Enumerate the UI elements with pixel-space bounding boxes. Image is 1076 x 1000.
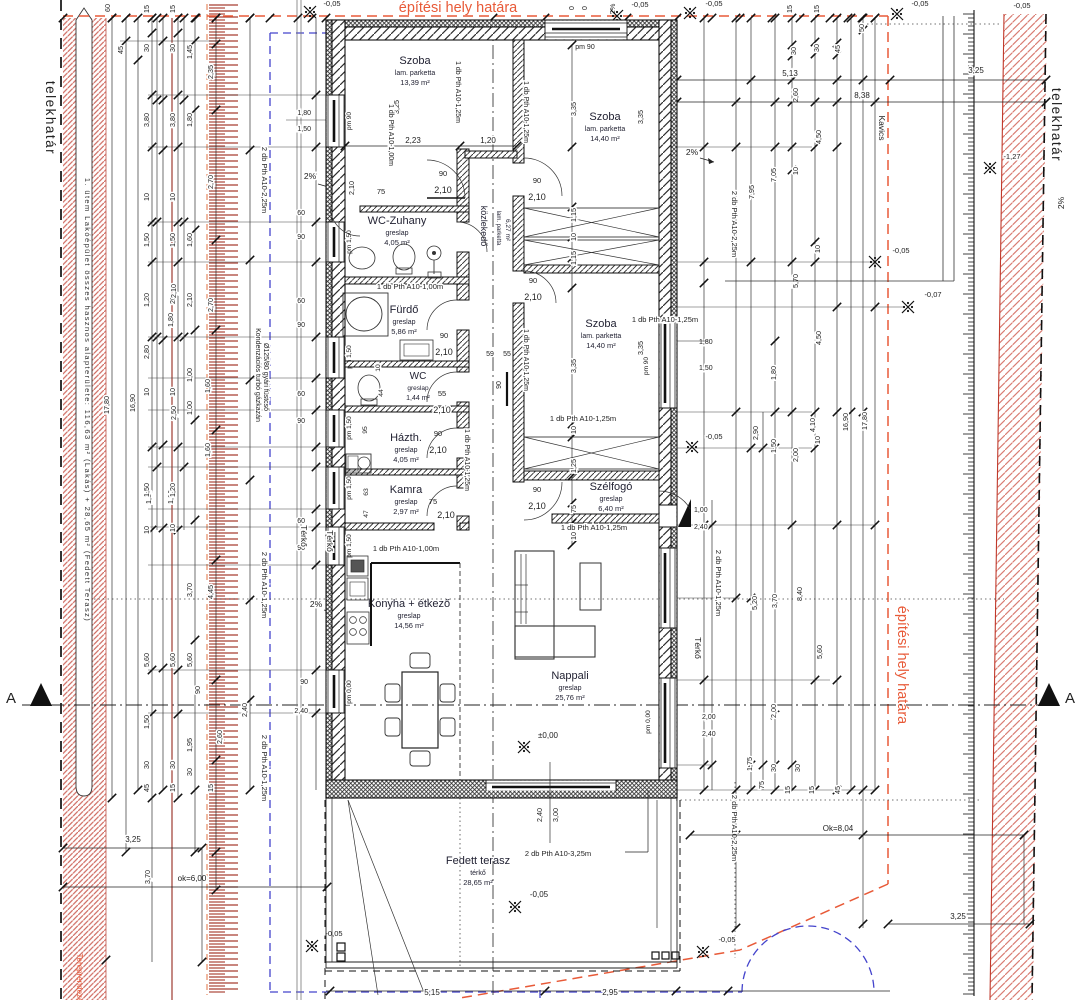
svg-text:15: 15 [168,784,177,792]
svg-text:1,15: 1,15 [569,251,578,265]
svg-text:3,25: 3,25 [968,66,984,75]
svg-text:5,86 m²: 5,86 m² [391,327,417,336]
svg-text:3,25: 3,25 [125,835,141,844]
svg-text:2,10: 2,10 [347,181,356,195]
svg-text:90: 90 [193,686,202,694]
svg-text:15: 15 [206,784,215,792]
svg-text:1,80: 1,80 [769,366,778,380]
svg-text:pm 1,50: pm 1,50 [346,416,353,440]
svg-text:1,95: 1,95 [185,738,194,752]
svg-text:7,05: 7,05 [769,168,778,182]
svg-text:3,35: 3,35 [569,359,578,373]
svg-text:60: 60 [297,518,305,525]
svg-text:lam. parketta: lam. parketta [495,211,501,246]
svg-text:1 db Pth A10-1,25m: 1 db Pth A10-1,25m [463,429,470,491]
svg-text:15: 15 [785,5,794,13]
svg-text:1,50: 1,50 [142,233,151,247]
svg-text:3,35: 3,35 [569,102,578,116]
svg-text:15: 15 [168,5,177,13]
svg-text:15: 15 [812,5,821,13]
svg-text:Szoba: Szoba [589,111,621,123]
svg-text:45: 45 [833,786,842,794]
svg-text:2 db Pth A10-1,25m: 2 db Pth A10-1,25m [714,550,723,616]
svg-text:90: 90 [529,276,537,285]
svg-text:greslap: greslap [395,447,418,454]
svg-text:greslap: greslap [559,685,582,692]
svg-text:2,70: 2,70 [206,298,215,312]
svg-text:2%: 2% [310,599,323,609]
svg-text:2,40: 2,40 [702,731,716,738]
svg-text:10: 10 [813,436,822,444]
svg-text:-0,05: -0,05 [631,0,648,9]
svg-text:1,80: 1,80 [699,339,713,346]
svg-text:75: 75 [377,187,385,196]
svg-text:greslap: greslap [393,319,416,326]
svg-text:10: 10 [813,245,822,253]
svg-text:90: 90 [496,381,503,389]
svg-text:3,80: 3,80 [168,113,177,127]
svg-text:59: 59 [486,351,494,358]
svg-text:45: 45 [833,45,842,53]
svg-text:60: 60 [297,298,305,305]
svg-text:47: 47 [363,510,370,518]
svg-text:2%: 2% [686,147,699,157]
svg-text:2%: 2% [304,171,317,181]
svg-text:90: 90 [300,679,308,686]
svg-text:90: 90 [297,234,305,241]
svg-text:2,00: 2,00 [769,704,778,718]
svg-text:2 db Pth A10-1,25m: 2 db Pth A10-1,25m [260,552,269,618]
svg-text:Tereprendezés: Tereprendezés [75,954,84,1000]
svg-text:15: 15 [783,786,792,794]
svg-text:30: 30 [812,44,821,52]
svg-text:1,20: 1,20 [168,483,177,497]
svg-text:3,35: 3,35 [636,110,645,124]
svg-text:3,70: 3,70 [185,583,194,597]
svg-text:30: 30 [769,764,778,772]
svg-text:2,10: 2,10 [434,185,452,195]
svg-text:75: 75 [569,505,578,513]
svg-text:1. ütem Lakóépület összes hasz: 1. ütem Lakóépület összes hasznos alapte… [83,178,92,622]
svg-text:1,20: 1,20 [480,136,496,145]
svg-text:90: 90 [297,418,305,425]
svg-text:1,20: 1,20 [142,293,151,307]
svg-text:45: 45 [116,46,125,54]
svg-text:60: 60 [297,210,305,217]
svg-text:2 db Pth A10-1,25m: 2 db Pth A10-1,25m [260,735,269,801]
svg-text:90: 90 [434,429,442,438]
svg-text:90: 90 [297,322,305,329]
svg-text:2,60: 2,60 [215,730,224,744]
svg-text:Kavics: Kavics [877,115,887,140]
svg-text:3,25: 3,25 [950,912,966,921]
svg-text:pm 0,00: pm 0,00 [645,710,652,734]
svg-text:-0,05: -0,05 [892,246,909,255]
svg-text:2,50: 2,50 [169,406,178,420]
svg-text:1 db Pth A10-1,00m: 1 db Pth A10-1,00m [377,282,443,291]
svg-text:1 db Pth A10-1,25m: 1 db Pth A10-1,25m [522,329,529,391]
svg-text:greslap: greslap [600,496,623,503]
svg-text:5,20: 5,20 [750,596,759,610]
svg-text:1,80: 1,80 [185,113,194,127]
svg-text:2,40: 2,40 [694,524,708,531]
svg-text:16,90: 16,90 [841,413,850,431]
svg-text:14,40 m²: 14,40 m² [586,341,616,350]
svg-text:30: 30 [142,44,151,52]
svg-text:greslap: greslap [407,385,429,392]
svg-text:2,97 m²: 2,97 m² [393,507,419,516]
svg-text:1,60: 1,60 [203,443,212,457]
svg-text:2 db Pth A10-2,25m: 2 db Pth A10-2,25m [730,795,739,861]
svg-text:30: 30 [168,44,177,52]
svg-text:Házth.: Házth. [390,432,422,444]
svg-text:4,05 m²: 4,05 m² [384,238,410,247]
svg-text:-0,05: -0,05 [325,929,342,938]
svg-text:10: 10 [168,193,177,201]
svg-text:10: 10 [569,532,578,540]
svg-text:lam. parketta: lam. parketta [585,126,626,133]
svg-text:1,00: 1,00 [185,401,194,415]
svg-text:greslap: greslap [395,499,418,506]
svg-text:0: 0 [582,6,589,10]
svg-text:2,40: 2,40 [535,808,544,822]
svg-text:10: 10 [168,524,177,532]
svg-text:10: 10 [375,364,382,372]
svg-text:16,90: 16,90 [128,394,137,412]
svg-text:-1,27: -1,27 [1003,152,1020,161]
svg-text:2,80: 2,80 [142,345,151,359]
svg-text:pm 0,00: pm 0,00 [346,680,353,704]
svg-text:30: 30 [185,768,194,776]
svg-text:Szélfogó: Szélfogó [590,481,633,493]
svg-text:90: 90 [440,331,448,340]
svg-text:28,65 m²: 28,65 m² [463,878,493,887]
svg-text:Fürdő: Fürdő [390,304,419,316]
svg-text:60: 60 [103,4,112,12]
svg-text:pm 1,50: pm 1,50 [346,476,353,500]
svg-text:1 db Pth A10-1,00m: 1 db Pth A10-1,00m [387,104,394,166]
svg-text:építési hely határa: építési hely határa [894,606,910,725]
svg-text:7,95: 7,95 [747,185,756,199]
svg-text:-0,05: -0,05 [323,0,340,8]
svg-text:A: A [1065,690,1075,707]
svg-text:Térkő: Térkő [299,525,309,547]
svg-text:1,80: 1,80 [166,313,175,327]
svg-text:2 db Pth A10-3,25m: 2 db Pth A10-3,25m [525,849,591,858]
svg-text:WC: WC [410,371,427,382]
svg-text:Szoba: Szoba [585,318,617,330]
svg-text:10: 10 [168,388,177,396]
svg-text:térkő: térkő [470,870,486,877]
svg-text:17,80: 17,80 [102,396,111,414]
svg-text:8,38: 8,38 [854,91,870,100]
svg-text:Nappali: Nappali [551,670,588,682]
svg-text:2,40: 2,40 [294,708,308,715]
svg-text:30: 30 [142,761,151,769]
svg-text:-0,05: -0,05 [1013,1,1030,10]
svg-text:15: 15 [142,5,151,13]
svg-text:30: 30 [168,761,177,769]
svg-text:1,00: 1,00 [694,507,708,514]
svg-text:4,10: 4,10 [808,418,817,432]
svg-text:8,40: 8,40 [795,587,804,601]
svg-text:10: 10 [791,167,800,175]
svg-text:2,00: 2,00 [791,448,800,462]
svg-text:2,10: 2,10 [429,445,447,455]
svg-text:Kondenzációs turbó gázkazán: Kondenzációs turbó gázkazán [254,328,261,422]
svg-text:10: 10 [569,426,578,434]
svg-text:2,10: 2,10 [435,347,453,357]
svg-text:1 db Pth A10-1,25m: 1 db Pth A10-1,25m [454,61,461,123]
svg-text:5,60: 5,60 [168,653,177,667]
svg-text:2 db Pth A10-2,25m: 2 db Pth A10-2,25m [730,191,739,257]
svg-text:1,25: 1,25 [569,459,578,473]
svg-text:±0,00: ±0,00 [538,731,559,740]
svg-text:5,15: 5,15 [424,988,440,997]
svg-text:telekhatár: telekhatár [1049,88,1064,162]
svg-text:3,35: 3,35 [636,341,645,355]
svg-text:25,76 m²: 25,76 m² [555,693,585,702]
svg-text:2,70: 2,70 [206,175,215,189]
svg-text:44: 44 [378,389,385,397]
svg-text:75: 75 [757,781,766,789]
svg-text:1,50: 1,50 [769,439,778,453]
svg-text:13,39 m²: 13,39 m² [400,78,430,87]
svg-text:2,23: 2,23 [405,136,421,145]
svg-text:5,60: 5,60 [815,645,824,659]
svg-text:1 db Pth A10-1,00m: 1 db Pth A10-1,00m [373,544,439,553]
svg-text:90: 90 [439,169,447,178]
svg-text:2,00: 2,00 [702,714,716,721]
svg-text:30: 30 [793,764,802,772]
svg-text:2,95: 2,95 [602,988,618,997]
svg-text:-0,05: -0,05 [530,890,549,899]
svg-text:ok=6,00: ok=6,00 [178,874,207,883]
svg-text:10: 10 [569,233,578,241]
svg-text:-0,05: -0,05 [705,432,722,441]
svg-text:55: 55 [503,351,511,358]
svg-text:A: A [6,690,16,707]
svg-text:1 db Pth A10-1,25m: 1 db Pth A10-1,25m [561,523,627,532]
svg-text:30: 30 [789,47,798,55]
svg-text:2,10: 2,10 [169,284,178,298]
svg-text:pm 90: pm 90 [346,112,353,130]
svg-text:60: 60 [297,391,305,398]
svg-text:50: 50 [857,24,866,32]
svg-text:1,50: 1,50 [168,233,177,247]
svg-text:3,70: 3,70 [770,594,779,608]
svg-text:14,40 m²: 14,40 m² [590,134,620,143]
svg-text:1,50: 1,50 [142,715,151,729]
svg-text:55: 55 [438,389,446,398]
svg-text:2,35: 2,35 [206,65,215,79]
svg-text:1,00: 1,00 [185,368,194,382]
svg-text:Fedett terasz: Fedett terasz [446,855,510,867]
svg-text:5,60: 5,60 [185,653,194,667]
svg-text:4,05 m²: 4,05 m² [393,455,419,464]
svg-text:1,60: 1,60 [185,233,194,247]
svg-text:6,27 m²: 6,27 m² [504,219,511,242]
svg-text:pm 1,50: pm 1,50 [346,534,353,558]
svg-text:telekhatár: telekhatár [43,81,58,155]
svg-text:WC-Zuhany: WC-Zuhany [368,215,427,227]
svg-text:4,45: 4,45 [206,585,215,599]
svg-text:lam. parketta: lam. parketta [581,333,622,340]
svg-text:-0,05: -0,05 [705,0,722,8]
svg-text:10: 10 [142,526,151,534]
svg-text:17,80: 17,80 [860,412,869,430]
svg-text:1,75: 1,75 [745,757,754,771]
svg-text:építési hely határa: építési hely határa [399,0,518,16]
svg-text:Térkő: Térkő [325,530,335,552]
svg-text:1 db Pth A10-1,25m: 1 db Pth A10-1,25m [522,81,529,143]
svg-text:3,00: 3,00 [551,808,560,822]
svg-text:pm 90: pm 90 [575,44,595,51]
svg-text:3,70: 3,70 [143,870,152,884]
svg-text:1,50: 1,50 [699,365,713,372]
svg-text:2,10: 2,10 [433,405,451,415]
svg-text:3,80: 3,80 [142,113,151,127]
svg-text:1 db Pth A10-1,25m: 1 db Pth A10-1,25m [632,315,698,324]
svg-text:2,10: 2,10 [185,293,194,307]
svg-text:5,60: 5,60 [142,653,151,667]
svg-text:90: 90 [533,176,541,185]
svg-text:1,50: 1,50 [297,126,311,133]
svg-text:15: 15 [807,786,816,794]
svg-text:2%: 2% [608,3,617,14]
svg-text:1 db Pth A10-1,25m: 1 db Pth A10-1,25m [550,414,616,423]
svg-text:1,15: 1,15 [569,208,578,222]
svg-text:4,50: 4,50 [814,130,823,144]
svg-text:Kamra: Kamra [390,484,423,496]
svg-text:közlekedő: közlekedő [479,206,489,247]
svg-text:63: 63 [363,488,370,496]
svg-text:2,10: 2,10 [437,510,455,520]
svg-text:-0,07: -0,07 [924,290,941,299]
svg-text:10: 10 [142,388,151,396]
svg-text:-0,05: -0,05 [911,0,928,8]
svg-text:1,45: 1,45 [185,45,194,59]
svg-text:pm 90: pm 90 [643,357,650,375]
svg-text:14,56 m²: 14,56 m² [394,621,424,630]
svg-text:90: 90 [533,485,541,494]
svg-text:6,40 m²: 6,40 m² [598,504,624,513]
svg-text:0: 0 [569,6,576,10]
svg-text:2%: 2% [1056,196,1066,209]
svg-text:2,60: 2,60 [791,88,800,102]
svg-text:Térkő: Térkő [693,637,703,659]
svg-text:Konyha + étkező: Konyha + étkező [368,598,450,610]
svg-text:1,80: 1,80 [297,110,311,117]
svg-text:Ø125/80 gyári füstcső: Ø125/80 gyári füstcső [262,343,269,411]
svg-text:greslap: greslap [398,613,421,620]
svg-text:1,50: 1,50 [142,483,151,497]
svg-text:5,13: 5,13 [782,69,798,78]
svg-text:95: 95 [362,426,369,434]
svg-text:4,50: 4,50 [814,331,823,345]
svg-text:10: 10 [142,193,151,201]
svg-text:greslap: greslap [386,230,409,237]
svg-text:2,10: 2,10 [528,192,546,202]
svg-text:-0,05: -0,05 [718,935,735,944]
svg-text:2 db Pth A10-2,25m: 2 db Pth A10-2,25m [260,147,269,213]
svg-text:2,10: 2,10 [528,501,546,511]
svg-text:lam. parketta: lam. parketta [395,70,436,77]
svg-text:2,40: 2,40 [240,703,249,717]
svg-text:2,90: 2,90 [751,426,760,440]
svg-text:1,60: 1,60 [203,379,212,393]
svg-text:45: 45 [142,784,151,792]
svg-text:Szoba: Szoba [399,55,431,67]
svg-text:Ok=8,04: Ok=8,04 [823,824,854,833]
svg-text:2,10: 2,10 [524,292,542,302]
